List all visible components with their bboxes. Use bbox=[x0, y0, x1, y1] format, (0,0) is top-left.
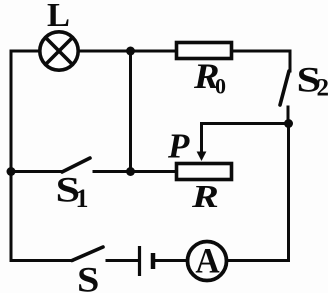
junction dot left bbox=[7, 167, 16, 176]
wire ammeter-to-right bbox=[228, 259, 289, 262]
wire wiper drop bbox=[200, 124, 203, 153]
wire left vertical bbox=[10, 51, 13, 260]
wire right vertical bbox=[287, 124, 290, 261]
svg-text:2: 2 bbox=[317, 74, 328, 101]
wire middle left bbox=[11, 170, 62, 173]
svg-text:P: P bbox=[167, 127, 190, 166]
switch S bbox=[72, 247, 103, 261]
wire bottom left bbox=[11, 259, 72, 262]
switch S1 bbox=[62, 158, 90, 172]
wire middle right horizontal bbox=[202, 122, 289, 125]
ammeter A bbox=[188, 242, 227, 281]
resistor R0 bbox=[177, 43, 232, 59]
svg-text:A: A bbox=[195, 241, 219, 281]
wiper arrow P bbox=[197, 152, 207, 162]
wire middle center bbox=[94, 170, 131, 173]
wire rheostat left lead bbox=[131, 170, 176, 173]
junction dot right bbox=[284, 119, 293, 128]
junction dot top bbox=[126, 47, 135, 56]
battery cell bbox=[140, 246, 154, 276]
svg-text:R: R bbox=[191, 178, 219, 214]
lamp L bbox=[40, 32, 78, 70]
svg-text:S: S bbox=[77, 260, 99, 293]
junction dot center bbox=[126, 167, 135, 176]
svg-text:L: L bbox=[47, 0, 70, 34]
wire S2 lower stub bbox=[287, 107, 290, 123]
svg-text:0: 0 bbox=[215, 74, 226, 99]
wire bottom switch-to-battery bbox=[107, 259, 138, 262]
svg-text:1: 1 bbox=[76, 184, 89, 213]
wire battery-to-ammeter bbox=[155, 259, 187, 262]
switch S2 bbox=[280, 71, 289, 105]
wire top left bbox=[11, 50, 39, 53]
wire S2 upper stub bbox=[289, 51, 292, 71]
wire top right bbox=[233, 50, 290, 53]
rheostat R bbox=[177, 164, 232, 180]
wire top middle bbox=[79, 50, 176, 53]
wire center vertical bbox=[129, 51, 132, 172]
